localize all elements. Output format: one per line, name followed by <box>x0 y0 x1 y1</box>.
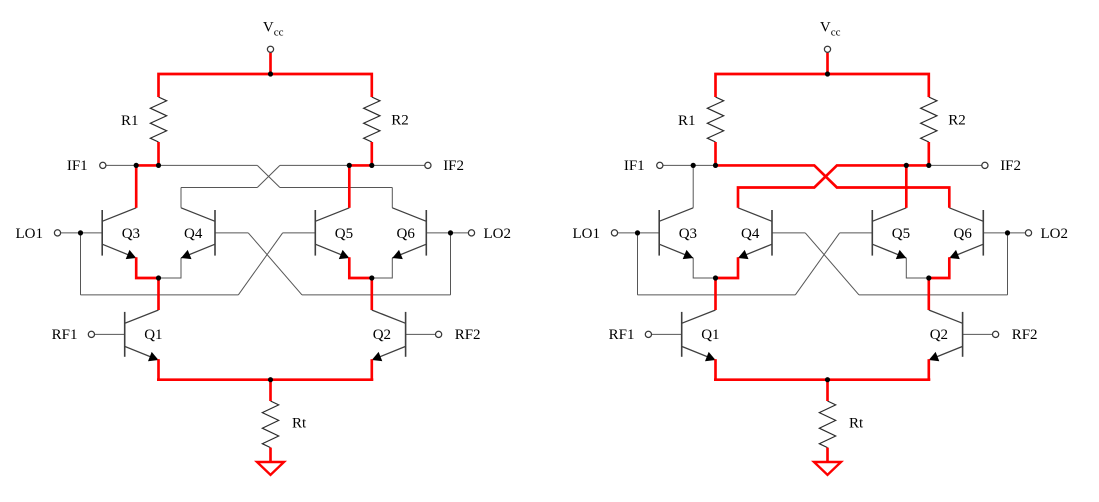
svg-text:IF1: IF1 <box>624 158 645 174</box>
svg-text:Q4: Q4 <box>741 226 760 242</box>
svg-text:IF2: IF2 <box>443 158 464 174</box>
svg-text:Q3: Q3 <box>679 226 697 242</box>
svg-text:R2: R2 <box>948 113 966 129</box>
svg-text:Q1: Q1 <box>144 327 162 343</box>
svg-text:LO2: LO2 <box>1041 226 1069 242</box>
svg-text:Q2: Q2 <box>930 327 948 343</box>
svg-text:Rt: Rt <box>849 416 864 432</box>
svg-text:LO1: LO1 <box>573 226 601 242</box>
svg-text:Q3: Q3 <box>122 226 140 242</box>
svg-text:R1: R1 <box>678 113 696 129</box>
svg-text:R1: R1 <box>121 113 139 129</box>
svg-text:LO2: LO2 <box>484 226 512 242</box>
svg-text:R2: R2 <box>391 113 409 129</box>
svg-text:Q6: Q6 <box>954 226 973 242</box>
svg-text:Q2: Q2 <box>373 327 391 343</box>
svg-text:Q5: Q5 <box>892 226 910 242</box>
svg-text:LO1: LO1 <box>16 226 44 242</box>
svg-text:IF2: IF2 <box>1000 158 1021 174</box>
svg-text:Vcc: Vcc <box>820 20 841 39</box>
svg-text:RF1: RF1 <box>52 327 78 343</box>
svg-text:RF1: RF1 <box>609 327 635 343</box>
svg-text:Q6: Q6 <box>397 226 416 242</box>
svg-text:Vcc: Vcc <box>263 20 284 39</box>
svg-text:RF2: RF2 <box>1012 327 1038 343</box>
svg-text:Rt: Rt <box>292 416 307 432</box>
svg-text:Q1: Q1 <box>701 327 719 343</box>
svg-text:RF2: RF2 <box>455 327 481 343</box>
svg-text:IF1: IF1 <box>67 158 88 174</box>
svg-text:Q5: Q5 <box>335 226 353 242</box>
svg-text:Q4: Q4 <box>184 226 203 242</box>
